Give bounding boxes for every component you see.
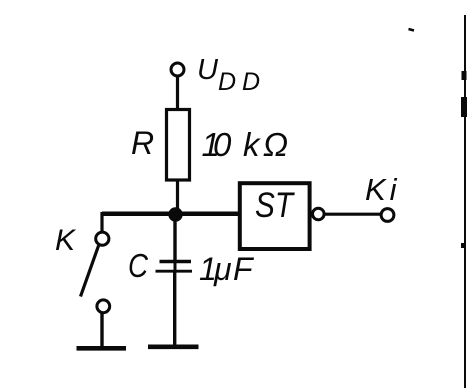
capacitor C top plate [160, 260, 192, 264]
ground right [148, 344, 199, 349]
svg-text:DD: DD [218, 68, 266, 96]
inverter bubble output [313, 208, 325, 220]
ground left [77, 346, 127, 351]
wire node row horizontal [102, 212, 239, 217]
switch arm [81, 246, 99, 297]
svg-text:10kΩ: 10kΩ [202, 126, 289, 163]
stray mark top [409, 29, 415, 31]
svg-text:K: K [55, 224, 77, 257]
wire terminal to resistor [176, 76, 179, 110]
wire bubble to Ki terminal [324, 213, 381, 216]
wire capacitor plate gap [174, 262, 177, 272]
terminal Ki [381, 209, 394, 222]
schmitt trigger U1 box [240, 183, 310, 249]
terminal UDD [171, 63, 184, 76]
node junction [168, 207, 182, 221]
svg-text:1μF: 1μF [199, 251, 255, 287]
label UDD [197, 54, 266, 96]
svg-text:Ki: Ki [365, 172, 401, 207]
page edge tick [461, 243, 464, 248]
svg-text:ST: ST [255, 186, 295, 225]
page edge artifact right [464, 15, 466, 388]
svg-text:U: U [197, 54, 219, 86]
switch bottom contact [97, 300, 110, 313]
capacitor C bottom plate [156, 270, 193, 273]
page edge blob 1 [462, 71, 467, 80]
resistor R1 [167, 110, 190, 181]
wire resistor to node [176, 180, 179, 215]
wire node to capacitor [173, 214, 176, 262]
svg-text:C: C [128, 247, 149, 284]
switch K pole contact [96, 232, 109, 245]
wire contact to ground [100, 313, 103, 350]
page edge blob 2 [461, 97, 467, 117]
wire switch drop [100, 212, 103, 233]
wire capacitor to ground [173, 272, 176, 347]
svg-text:R: R [131, 125, 154, 161]
